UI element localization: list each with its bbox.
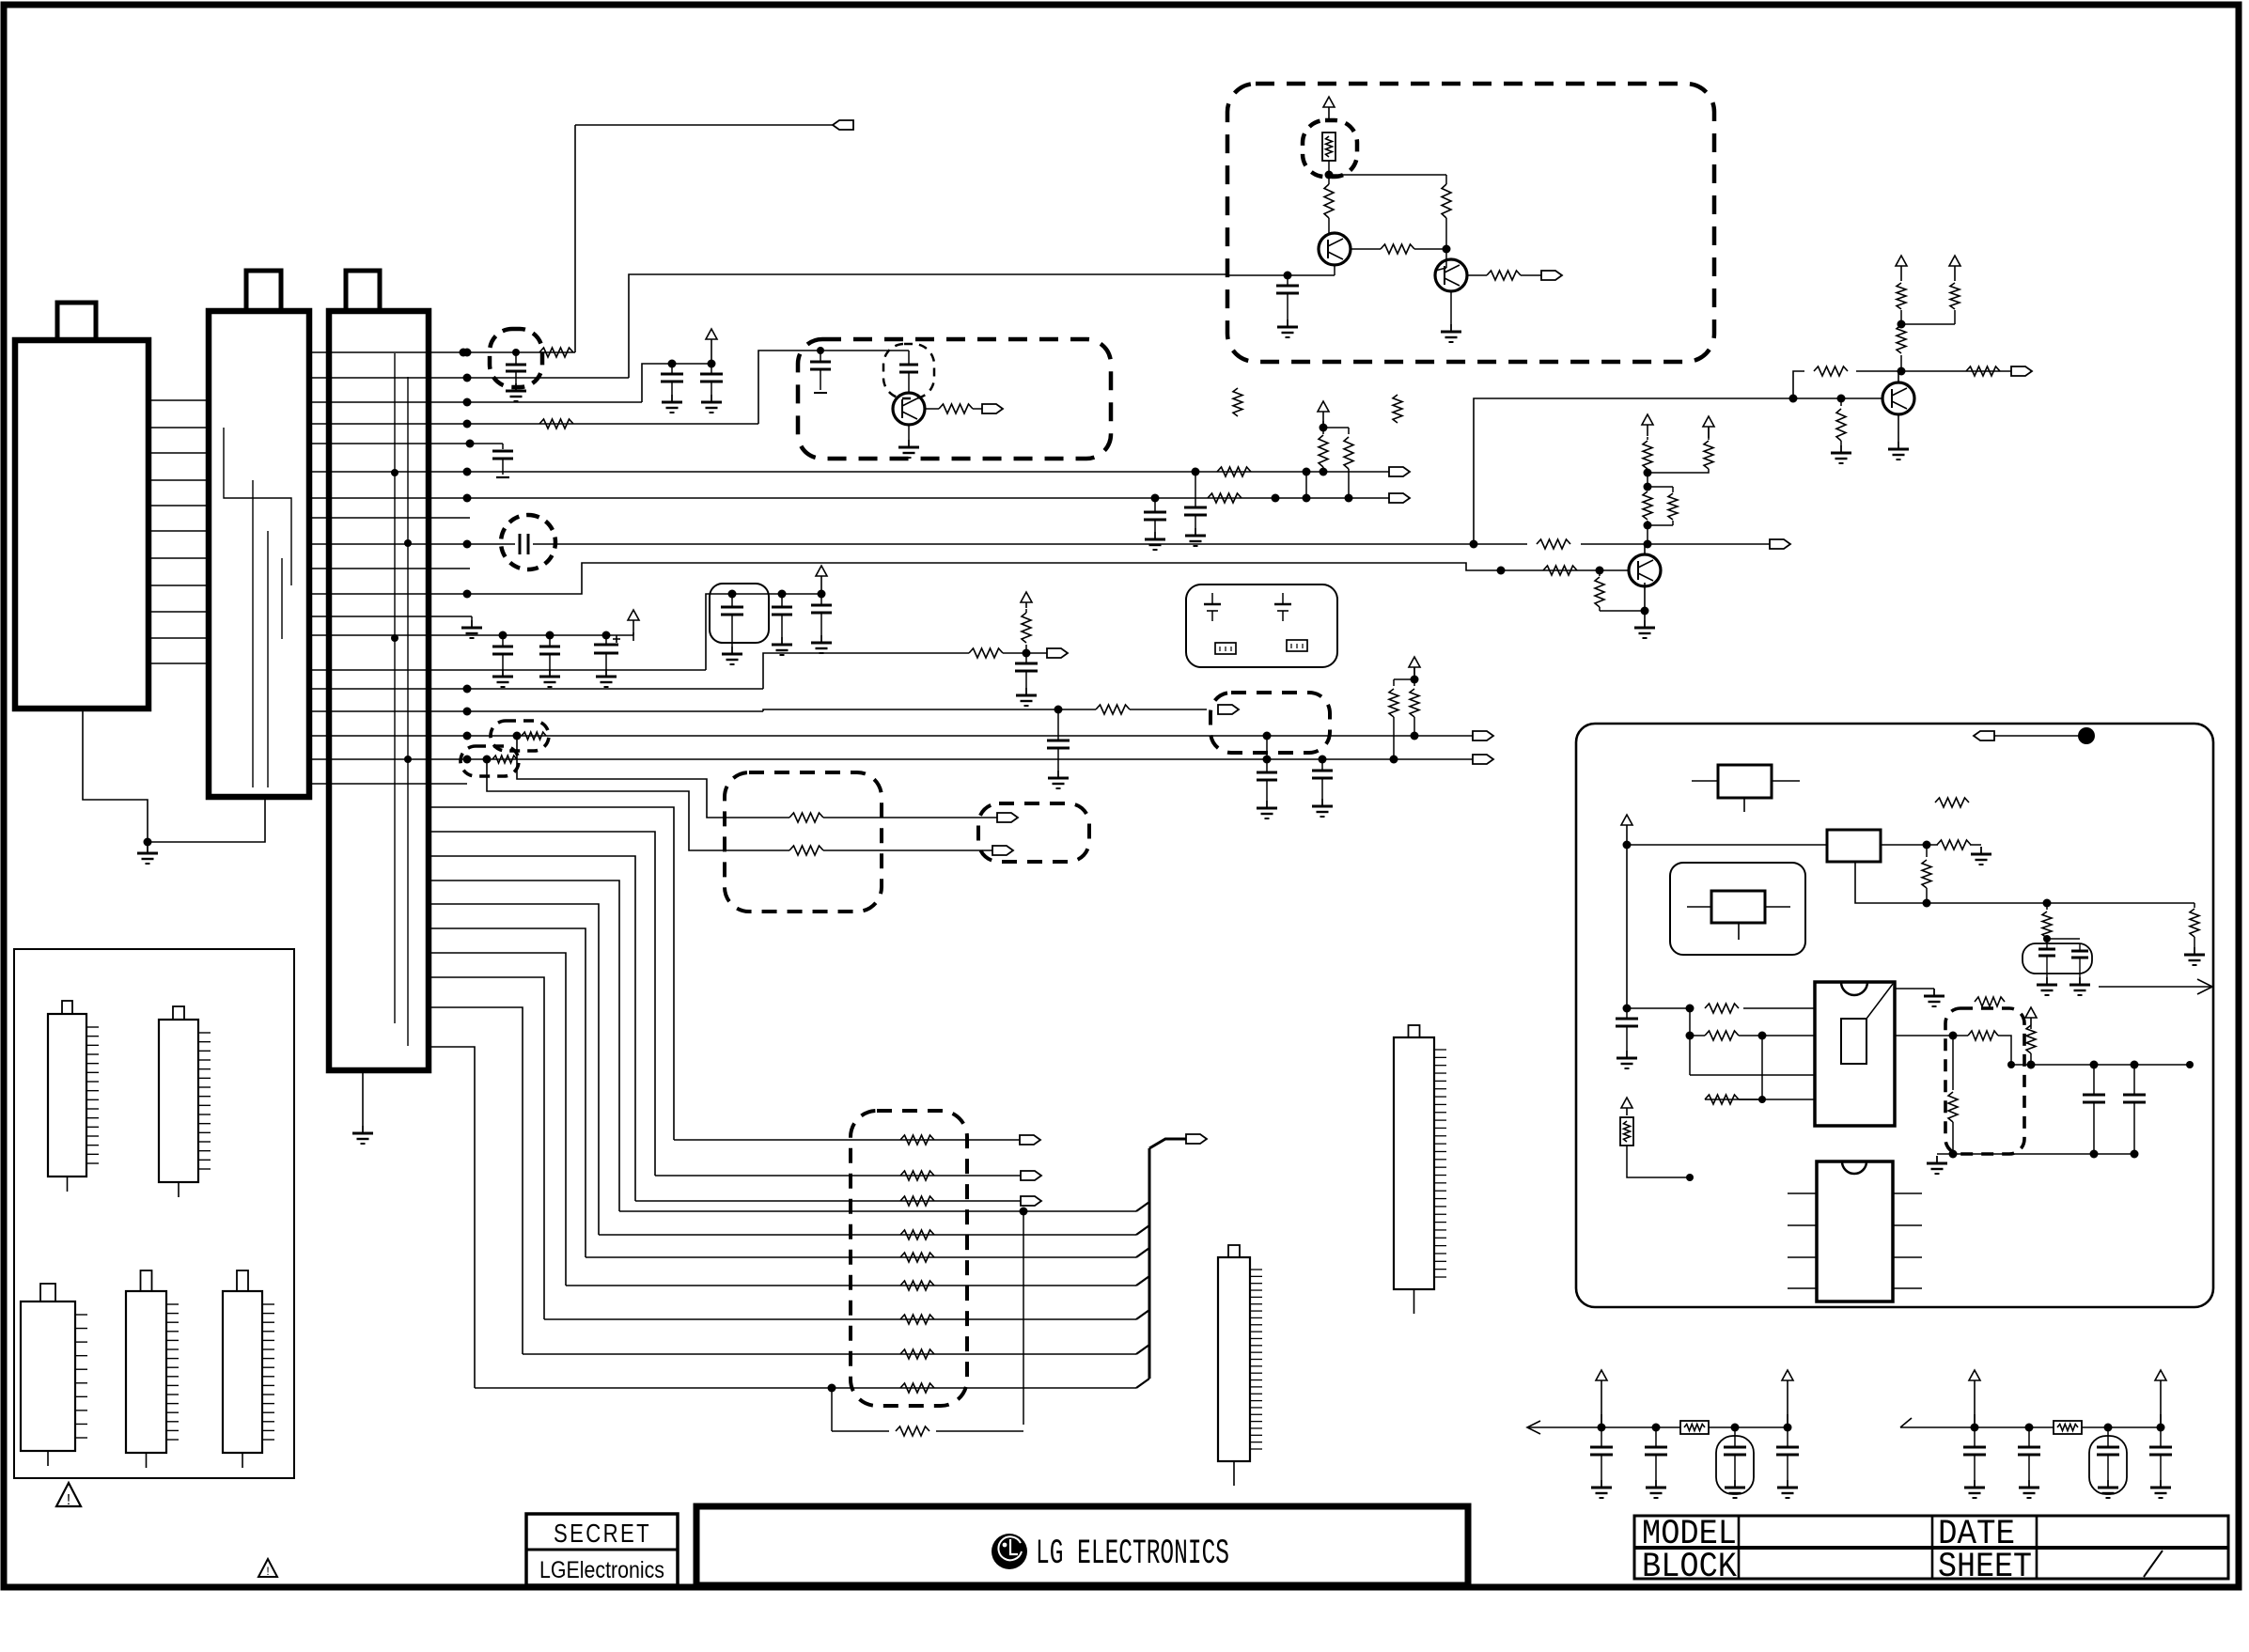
connector P2 block	[209, 311, 309, 797]
wire net ROW375	[311, 125, 833, 357]
connector P1 block	[15, 340, 148, 709]
capacitor C3	[700, 364, 723, 395]
capacitor C5	[1184, 472, 1207, 528]
ground GND24	[1277, 319, 1298, 337]
ground GND13	[492, 669, 513, 687]
resistor R7	[1836, 398, 1846, 445]
resistor R18	[1704, 428, 1713, 469]
transistor Q2	[1629, 554, 1661, 586]
dashed box DB-A	[725, 772, 882, 912]
resistor R57	[492, 756, 517, 763]
power arrow VCC4	[1949, 256, 1960, 281]
connector lug X4	[2011, 366, 2032, 376]
ground GND34	[1646, 1480, 1666, 1498]
IC U2	[1788, 1161, 1922, 1301]
power arrow VCC13	[1621, 1098, 1632, 1115]
resistor R24	[1410, 679, 1419, 736]
resistor R48	[1705, 1031, 1739, 1040]
power arrow VCC15	[1596, 1370, 1607, 1427]
capacitor C17	[1312, 759, 1333, 799]
wire P3 bottom lead	[362, 1070, 364, 1126]
wire net row1133	[1998, 1036, 2194, 1069]
ground GND32	[1927, 1156, 1947, 1174]
resistor R22	[1096, 705, 1130, 714]
resistor R26	[789, 846, 823, 855]
dashed box DB-E	[798, 339, 1111, 459]
wire vertical bus	[1149, 1139, 1186, 1379]
connector lug X8	[1473, 731, 1493, 740]
wire net ROW395	[1793, 367, 2011, 399]
connector J1	[1218, 1245, 1262, 1486]
capacitor C27	[1776, 1427, 1799, 1480]
connector lug X17	[1541, 271, 1562, 280]
solid rounded box B4	[1186, 584, 1337, 667]
resistor R8	[1814, 366, 1848, 376]
capacitor C21	[1616, 1008, 1638, 1051]
resistor R52	[1948, 1036, 1958, 1154]
wire branch ROW829	[517, 736, 789, 818]
LG logo	[992, 1534, 1027, 1569]
wire Q2 emitter net	[1600, 583, 1649, 620]
ground GND19	[1016, 688, 1037, 706]
wire net ROW293	[1227, 265, 1335, 280]
connector lug X14	[1021, 1196, 1041, 1206]
warning triangle W1	[56, 1483, 81, 1508]
ground GND3	[506, 383, 526, 401]
ground GND38	[2019, 1480, 2039, 1498]
power arrow VCC6	[1703, 416, 1714, 438]
wire Q5 emitter	[1450, 291, 1452, 324]
component Y1 box	[1692, 765, 1800, 812]
resistor R38	[1324, 184, 1334, 233]
capacitor C1	[506, 349, 526, 383]
power arrow VCC7	[628, 610, 639, 641]
resistor R55	[1393, 395, 1402, 423]
capacitor C4	[492, 451, 513, 477]
connector lug X15	[1186, 1134, 1207, 1144]
dashed highlight oval E1	[491, 721, 549, 751]
ground GND31	[1616, 1051, 1637, 1068]
wire net ROW451	[311, 351, 820, 429]
SECRET text	[554, 1519, 651, 1548]
capacitor C2	[661, 364, 683, 395]
wire net ROW733	[311, 649, 1047, 694]
svg-text:!: !	[266, 1565, 269, 1578]
resistor R56	[522, 732, 546, 740]
resistor R45	[2190, 903, 2199, 947]
wire bus staircase from P3	[429, 807, 674, 1388]
component Y3 box	[1687, 891, 1790, 940]
title table	[1634, 1516, 2228, 1579]
resistor R23	[1389, 679, 1398, 759]
title banner box	[696, 1506, 1468, 1585]
ground GND20	[1048, 771, 1069, 788]
transistor Q3	[893, 393, 925, 425]
power arrow VCC11	[1323, 97, 1335, 118]
ground GND35	[1725, 1480, 1745, 1498]
resistor R14	[1595, 570, 1604, 611]
dashed highlight circle C34	[501, 515, 555, 569]
resistor R13	[1543, 566, 1577, 575]
resistor R39	[1442, 184, 1451, 254]
wire stub ROW834	[311, 783, 467, 785]
wire net PWRGRP1	[1527, 1421, 1792, 1434]
connector lug X5	[1770, 539, 1790, 549]
capacitor C11	[721, 594, 743, 647]
wire net ROW502	[311, 468, 1389, 476]
SECRET stamp box	[526, 1514, 678, 1585]
IC U7	[223, 1270, 274, 1468]
wire net Y2 out	[1881, 841, 1938, 849]
wire net ROW783	[311, 732, 1473, 740]
dashed highlight circle C19	[883, 344, 934, 398]
IC U1	[1815, 982, 1895, 1126]
solid rounded box B2 main	[1576, 724, 2213, 1307]
filter component FL1	[1215, 643, 1236, 654]
wire node ROW1289	[1020, 1208, 1028, 1426]
dashed box DB-B	[978, 803, 1089, 862]
transistor Q5	[1435, 259, 1467, 291]
wire Q1 emitter	[1898, 414, 1899, 442]
ground GND28	[2037, 977, 2057, 995]
capacitor C30	[2097, 1427, 2119, 1480]
wire net row1228	[1937, 1150, 2139, 1159]
capacitor C31	[2149, 1427, 2172, 1480]
solid rounded box B1	[710, 584, 769, 643]
power arrow VCC17	[1969, 1370, 1980, 1427]
trimmer capacitor CT2	[1274, 593, 1291, 621]
wire net ROW757	[311, 706, 1207, 716]
ground GND21	[1257, 801, 1277, 818]
capacitor C6	[1144, 498, 1166, 532]
resistor R46	[2042, 903, 2052, 943]
power arrow VCC18	[2155, 1370, 2166, 1427]
LGElectronics text	[539, 1557, 664, 1583]
resistor R25	[789, 813, 823, 822]
capacitor C16	[1257, 759, 1277, 801]
wire rows to lugs	[635, 1140, 1021, 1201]
wire net VREG	[1623, 833, 1828, 849]
power arrow VCC14	[2025, 1007, 2037, 1025]
DATE label	[1938, 1515, 2015, 1554]
wire net ROW579	[311, 395, 1882, 549]
ground GND29	[2069, 977, 2090, 995]
capacitor C9	[539, 635, 560, 669]
trimmer capacitor CT1	[1204, 593, 1221, 621]
resistor R29	[900, 1196, 934, 1206]
test point TP1	[2078, 727, 2095, 744]
wire to test point	[1994, 735, 2079, 737]
ground GND30	[1924, 989, 1944, 1006]
power arrow VCC1	[706, 329, 717, 364]
filter component FL2	[1287, 640, 1307, 651]
resistor R10	[1897, 325, 1906, 371]
resistor R53	[2026, 1025, 2036, 1065]
resistor R43	[1937, 840, 1981, 849]
resistor R1	[539, 348, 573, 357]
connector lug X12	[1020, 1135, 1040, 1145]
power arrow VCC2 net	[1318, 401, 1349, 434]
connector lug X18	[1974, 731, 1994, 740]
IC U3	[48, 1001, 99, 1192]
fusible resistor FR3	[1680, 1421, 1709, 1434]
capacitor C34 series	[520, 534, 528, 554]
wire U1 gnd stub	[1895, 988, 1934, 990]
ground GND16	[722, 647, 742, 664]
resistor R3	[1217, 467, 1251, 476]
wire net ROW870	[823, 817, 997, 818]
wire net ROW472	[311, 440, 503, 450]
wire Q3 emitter	[908, 425, 910, 440]
wire node N1	[1898, 310, 1956, 329]
ground GND33	[1591, 1480, 1612, 1498]
oval highlight C30	[2089, 1436, 2127, 1494]
capacitor C15	[1047, 709, 1070, 771]
ground GND36	[1777, 1480, 1798, 1498]
connector lug X9	[1473, 755, 1493, 764]
resistor R40	[1351, 244, 1446, 254]
capacitor C10 electrolytic	[594, 635, 620, 669]
capacitor C20	[1276, 275, 1299, 319]
wire net PWRGRP2	[1900, 1418, 2165, 1432]
power arrow VCC12	[1621, 815, 1632, 833]
dashed highlight circle FR1	[1303, 120, 1357, 177]
dashed box DB-D tall	[851, 1111, 967, 1406]
resistor R9	[1966, 366, 2000, 376]
power arrow VCC9	[1021, 592, 1032, 608]
wire rows to bus	[475, 1202, 1149, 1388]
resistor R4	[1208, 493, 1242, 503]
resistor R20	[969, 648, 1003, 658]
connector lug X3	[1389, 493, 1410, 503]
resistor R35	[900, 1383, 934, 1393]
capacitor C14	[1015, 653, 1038, 688]
resistor R36	[896, 1426, 929, 1436]
transistor Q1	[1882, 382, 1914, 414]
capacitor C23	[2123, 1065, 2146, 1154]
ground GND12	[461, 620, 482, 638]
warning triangle W2	[258, 1559, 277, 1578]
resistor R34	[900, 1349, 934, 1359]
svg-text:SHEET: SHEET	[1938, 1548, 2032, 1587]
fusible resistor FR1	[1322, 132, 1335, 161]
wire net row1170	[1705, 1036, 1815, 1103]
resistor R31	[900, 1253, 934, 1262]
ground GND40	[2150, 1480, 2171, 1498]
IC U6	[126, 1270, 179, 1468]
wire net ROW961	[1855, 862, 2194, 908]
wire P1 ground net	[83, 709, 265, 847]
resistor R41	[1467, 271, 1541, 280]
wire stub ROW551	[311, 517, 470, 519]
wires inside P2	[224, 428, 291, 787]
wire FR2 bottom	[1627, 1075, 1694, 1181]
ground GND7	[1145, 532, 1165, 550]
IC U5	[21, 1284, 87, 1466]
ground GND17	[772, 637, 792, 655]
ground GND39	[2098, 1480, 2118, 1498]
wire Q4Q5 base link	[1435, 249, 1446, 271]
wire Q2 collector chain	[1644, 469, 1674, 555]
wire net DBE	[820, 350, 909, 351]
connector lug X7	[1218, 705, 1239, 714]
resistor R50	[1975, 997, 2005, 1006]
dashed highlight oval E2	[461, 746, 519, 776]
wire net N2	[1648, 469, 1709, 473]
ground GND1	[137, 846, 158, 864]
wires inside P3	[391, 353, 412, 1046]
power arrow VCC10	[1394, 657, 1420, 684]
LG ELECTRONICS text	[1036, 1535, 1229, 1574]
resistor R15	[1643, 491, 1652, 520]
capacitor C25	[1645, 1427, 1667, 1480]
connector lug X6	[1047, 648, 1068, 658]
resistor R6	[1344, 437, 1353, 498]
wire net row1102	[1686, 1008, 1816, 1040]
resistor R5	[1319, 435, 1328, 472]
BLOCK label	[1642, 1548, 1738, 1587]
ground GND4	[662, 395, 682, 413]
resistor R33	[900, 1315, 934, 1324]
resistor R27	[900, 1135, 934, 1145]
ground GND8	[1888, 442, 1909, 460]
fusible resistor FR2	[1620, 1117, 1633, 1145]
resistor R12	[1950, 283, 1960, 309]
resistor R17	[1643, 437, 1652, 473]
wire net row1144	[1690, 1036, 1815, 1075]
power arrow VCC5	[1642, 414, 1653, 436]
component Y2 box	[1827, 830, 1881, 862]
svg-text:!: !	[67, 1492, 70, 1508]
dashed box DB-C	[1210, 693, 1330, 753]
connector lug X11	[992, 846, 1013, 855]
wire net left column	[1623, 845, 1816, 1013]
oval highlight C26	[1716, 1436, 1754, 1494]
ground GND22	[1312, 799, 1333, 817]
connector P1 tab	[57, 303, 96, 340]
transistor Q4	[1319, 233, 1351, 265]
power arrow VCC8	[816, 566, 827, 591]
solid rounded box B3	[1670, 863, 1805, 955]
power arrow VCC3	[1896, 256, 1907, 281]
resistor R16	[1668, 493, 1678, 520]
ground GND9	[1831, 445, 1851, 463]
resistor R32	[900, 1281, 934, 1290]
wire net ROW530	[311, 472, 1389, 503]
ground GND18	[811, 635, 832, 653]
dashed box DB-F	[1227, 84, 1714, 362]
resistor R44	[1922, 845, 1931, 903]
ground GND2	[352, 1126, 373, 1144]
ground GND6	[1185, 528, 1206, 546]
connector P3 block	[329, 311, 429, 1070]
resistor R47	[1705, 1004, 1739, 1013]
resistor R54	[1233, 388, 1242, 416]
capacitor C18	[810, 347, 831, 393]
dashed highlight circle C1	[490, 329, 542, 387]
wire net ROW402	[311, 274, 1227, 382]
resistor R37	[925, 404, 982, 413]
resistor R30	[900, 1230, 934, 1239]
ground GND15	[596, 669, 617, 687]
capacitor C22	[2083, 1065, 2105, 1154]
ground GND37	[1964, 1480, 1985, 1498]
connector P2 tab	[246, 271, 281, 311]
wire net Q4 collector	[1325, 161, 1447, 184]
resistor R28	[900, 1171, 934, 1180]
sub-board outline box	[14, 949, 294, 1478]
wire net ROW808	[311, 736, 1473, 764]
wire stub ROW605	[311, 568, 470, 569]
capacitor C29	[2018, 1427, 2040, 1480]
sheet slash	[2144, 1551, 2163, 1577]
ground GND25	[1441, 324, 1461, 342]
signal arrow A1	[2099, 979, 2212, 994]
wire net ROW676	[311, 631, 633, 640]
resistor R42	[1935, 798, 1969, 807]
connector lug X16	[982, 404, 1003, 413]
capacitor C24	[1590, 1427, 1613, 1480]
fusible resistor FR4	[2054, 1421, 2082, 1434]
connector P3 tab	[346, 271, 380, 311]
ground GND27	[2184, 947, 2205, 965]
capacitor C13	[811, 594, 832, 635]
svg-text:BLOCK: BLOCK	[1642, 1548, 1738, 1587]
ground GND5	[701, 395, 722, 413]
connector lug X2	[1389, 467, 1410, 476]
resistor R11	[1897, 283, 1906, 309]
svg-text:SECRET: SECRET	[554, 1519, 651, 1548]
wire Q1 collector	[1898, 371, 1899, 382]
ground GND10	[1634, 620, 1655, 638]
svg-text:LG ELECTRONICS: LG ELECTRONICS	[1036, 1535, 1229, 1574]
power arrow VCC16	[1782, 1370, 1793, 1427]
wire net ROW629	[311, 563, 1629, 599]
ground GND26	[1971, 847, 1991, 865]
wire stub ROW656	[311, 616, 472, 620]
connector lug X13	[1021, 1171, 1041, 1180]
wire net ROW428	[311, 360, 716, 407]
svg-text:LGElectronics: LGElectronics	[539, 1557, 664, 1583]
ground GND23	[898, 440, 919, 458]
SHEET label	[1938, 1548, 2032, 1587]
connector lug X10	[997, 813, 1018, 822]
wire net ROW1523	[828, 1384, 1024, 1432]
connector lug X1	[833, 120, 853, 130]
capacitor C28	[1963, 1427, 1986, 1480]
resistor R2	[539, 419, 573, 429]
resistor R51	[1968, 1031, 1998, 1040]
wire net ROW905	[823, 849, 992, 851]
resistor R19	[1537, 539, 1570, 549]
wire branch ROW842	[487, 759, 789, 850]
ground GND14	[539, 669, 560, 687]
dashed box DB-G	[1945, 1008, 2024, 1154]
wire net U1 out	[1895, 1032, 1968, 1040]
IC U4	[159, 1006, 211, 1197]
wires P1 to P2 pin stubs	[148, 400, 209, 663]
capacitor C19	[899, 351, 918, 393]
MODEL label	[1642, 1515, 1737, 1554]
capacitor C8	[492, 635, 513, 669]
connector J2	[1394, 1025, 1446, 1314]
capacitor C26	[1724, 1427, 1746, 1480]
resistor R49	[1705, 1095, 1739, 1104]
wire net ROW713	[311, 590, 826, 671]
crystal XT1 group	[2023, 939, 2092, 977]
resistor R21	[1022, 609, 1031, 653]
capacitor C12	[772, 594, 792, 637]
